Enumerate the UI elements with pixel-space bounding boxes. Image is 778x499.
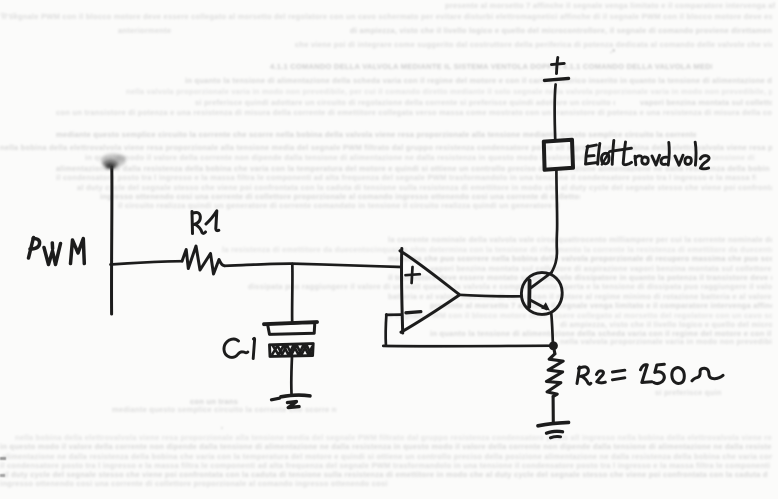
wire R1 to op-amp	[225, 264, 402, 267]
node PWM input (vertical input line)	[110, 167, 113, 314]
solenoid valve (Elettrovalvola) symbol	[544, 140, 573, 170]
ground (C1)	[272, 395, 310, 408]
junction node dot	[549, 341, 558, 350]
wire C1 to ground	[290, 357, 293, 394]
wire node to C1	[291, 264, 294, 323]
label C1	[224, 338, 255, 358]
wire op-amp output to transistor base	[459, 295, 521, 297]
label R1	[192, 211, 219, 234]
wire feedback (inverting input loop)	[383, 314, 553, 346]
capacitor C1 top plate	[264, 322, 317, 334]
transistor emitter arrow	[541, 302, 550, 310]
transistor Q1	[521, 273, 562, 315]
op-amp U1	[400, 249, 459, 334]
resistor R2	[547, 346, 564, 423]
op-amp + input marker	[406, 267, 420, 283]
resistor R1	[182, 246, 225, 274]
wire +V to valve	[555, 85, 556, 140]
label R2 value 250 ohm	[577, 364, 723, 384]
wire emitter to node	[551, 313, 553, 346]
smudge blob at top of input line	[101, 154, 126, 170]
wire PWM to R1	[111, 261, 183, 264]
capacitor C1 bottom plate (hatched)	[270, 344, 314, 357]
label PWM	[29, 238, 85, 265]
wire collector to valve	[552, 171, 558, 273]
op-amp - input marker	[406, 312, 421, 313]
power +V terminal	[545, 58, 569, 81]
ground (R2)	[538, 422, 569, 437]
label Elettrovalvola	[586, 141, 709, 169]
